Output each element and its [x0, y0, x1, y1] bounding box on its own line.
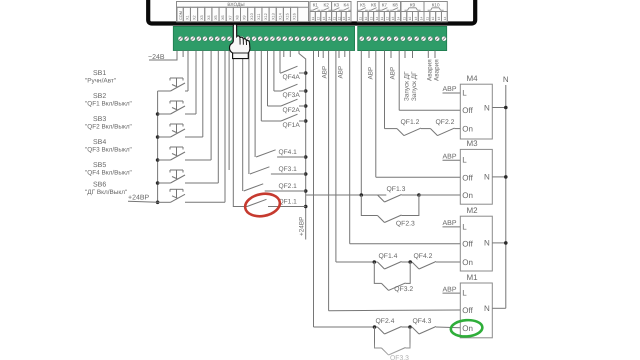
- net label Запуск ДГ (stub): [404, 51, 406, 58]
- M1 Off wire: [329, 309, 461, 312]
- svg-text:N: N: [484, 239, 490, 248]
- svg-text:X13: X13: [271, 13, 275, 20]
- contact QF4A: [279, 51, 281, 73]
- M3 On branch from +24VP bus: [306, 194, 387, 196]
- svg-text:QF4.3: QF4.3: [413, 318, 432, 325]
- svg-text:14: 14: [396, 17, 400, 21]
- input cells COM..X16: [177, 7, 183, 21]
- K1 K2 block: [310, 2, 332, 22]
- junction: [417, 193, 421, 197]
- svg-text:Off: Off: [462, 106, 473, 115]
- svg-text:QF1.3: QF1.3: [387, 186, 406, 193]
- -24V supply wire and label: [149, 51, 177, 60]
- svg-text:К8: К8: [393, 2, 399, 7]
- svg-text:SB2: SB2: [93, 93, 106, 100]
- parallel branch contact QF3.3: [375, 327, 382, 348]
- svg-text:SB6: SB6: [93, 181, 106, 188]
- svg-text:11: 11: [311, 17, 315, 21]
- svg-text:QF1A: QF1A: [283, 122, 301, 129]
- M2 Off wire: [350, 243, 461, 245]
- N wire of M3: [492, 176, 506, 178]
- svg-text:К10: К10: [432, 2, 440, 7]
- svg-text:QF2.2: QF2.2: [436, 119, 455, 126]
- wire to QF1.2 branch (M4 On): [384, 51, 386, 129]
- wire: [185, 159, 211, 161]
- svg-text:"ДГ Вкл/Выкл": "ДГ Вкл/Выкл": [85, 189, 127, 196]
- M2 On branch: [336, 261, 378, 263]
- svg-text:АВР: АВР: [337, 66, 344, 79]
- wire to M2 Off: [349, 51, 351, 244]
- svg-text:On: On: [462, 191, 473, 200]
- svg-text:К5: К5: [360, 2, 366, 7]
- wire from terminal to QF1.1: [233, 51, 247, 207]
- svg-text:SB4: SB4: [93, 139, 106, 146]
- svg-text:13: 13: [437, 17, 441, 21]
- svg-text:АВР: АВР: [389, 67, 396, 80]
- svg-text:QF1.1: QF1.1: [279, 199, 298, 206]
- M4 On branch wire: [385, 128, 398, 130]
- svg-text:"QF4 Вкл/Выкл": "QF4 Вкл/Выкл": [85, 170, 132, 177]
- wire to M3 Off: [375, 51, 377, 178]
- svg-text:QF3A: QF3A: [283, 92, 301, 99]
- svg-text:QF1.4: QF1.4: [379, 253, 398, 260]
- svg-text:К3: К3: [334, 2, 340, 7]
- svg-text:N: N: [484, 103, 490, 112]
- svg-text:11: 11: [359, 17, 363, 21]
- svg-text:К6: К6: [371, 2, 377, 7]
- N wire of M4: [492, 107, 506, 109]
- svg-text:L: L: [462, 88, 467, 97]
- net label Авария (stub): [434, 51, 436, 58]
- svg-text:QF3.2: QF3.2: [394, 286, 413, 293]
- contact QF2.1: [242, 51, 244, 191]
- wire to QF1.3 branch (M3 On): [360, 51, 362, 195]
- svg-text:L: L: [462, 222, 467, 231]
- svg-text:Запуск ДГ: Запуск ДГ: [411, 71, 418, 101]
- svg-text:X16: X16: [293, 13, 297, 20]
- contact QF3A: [273, 51, 275, 91]
- svg-text:On: On: [462, 124, 473, 133]
- svg-text:M2: M2: [466, 206, 478, 215]
- svg-text:14: 14: [327, 17, 331, 21]
- svg-text:X5: X5: [214, 15, 218, 20]
- PLC device outline (thick bottom edge of controller): [148, 0, 475, 24]
- svg-text:14: 14: [375, 17, 379, 21]
- wire to M1 Off: [328, 51, 330, 311]
- svg-text:"Ручн/Авт": "Ручн/Авт": [85, 78, 116, 85]
- svg-text:M4: M4: [466, 74, 478, 83]
- svg-text:X3: X3: [200, 15, 204, 20]
- green annotation ellipse around M1 On: [450, 319, 483, 337]
- K10 block: [424, 2, 447, 22]
- svg-text:+24ВР: +24ВР: [299, 217, 306, 236]
- contact QF1.1: [247, 199, 267, 206]
- contact QF4.1: [254, 51, 256, 157]
- spare wire: [228, 51, 230, 170]
- svg-text:L: L: [462, 289, 467, 298]
- svg-text:QF3.1: QF3.1: [279, 166, 298, 173]
- screws of strip 1: [178, 36, 183, 41]
- svg-text:N: N: [484, 304, 490, 313]
- svg-text:12: 12: [431, 17, 435, 21]
- screws of strip 2: [359, 36, 364, 41]
- svg-text:X12: X12: [264, 13, 268, 20]
- svg-text:АВР: АВР: [443, 220, 457, 227]
- parallel branch contact QF3.2: [374, 262, 381, 283]
- svg-text:Off: Off: [462, 173, 473, 182]
- svg-text:QF2A: QF2A: [283, 107, 301, 114]
- svg-text:14: 14: [420, 17, 424, 21]
- K5 K6 block: [357, 2, 379, 22]
- svg-text:12: 12: [386, 17, 390, 21]
- svg-text:On: On: [462, 324, 473, 333]
- wire: [185, 90, 188, 92]
- svg-text:12: 12: [317, 17, 321, 21]
- svg-text:11: 11: [380, 17, 384, 21]
- mouse hand cursor: [229, 24, 249, 59]
- svg-text:АВР: АВР: [443, 86, 457, 93]
- svg-text:X8: X8: [236, 15, 240, 20]
- contact QF1A: [260, 51, 262, 121]
- net label Запуск ДГ (stub): [412, 51, 414, 58]
- svg-text:Запуск ДГ: Запуск ДГ: [403, 71, 410, 101]
- svg-text:X11: X11: [257, 14, 261, 20]
- svg-text:К9: К9: [410, 2, 416, 7]
- svg-text:N: N: [503, 75, 509, 84]
- wire: [185, 182, 218, 184]
- svg-text:"QF3 Вкл/Выкл": "QF3 Вкл/Выкл": [85, 147, 132, 154]
- svg-text:+24ВР: +24ВР: [128, 194, 150, 201]
- svg-text:14: 14: [443, 17, 447, 21]
- wire: [185, 113, 196, 115]
- svg-text:X15: X15: [286, 13, 290, 20]
- svg-text:QF4A: QF4A: [283, 74, 301, 81]
- svg-text:К1: К1: [313, 2, 319, 7]
- svg-text:АВР: АВР: [443, 153, 457, 160]
- junction: [360, 193, 364, 197]
- svg-text:QF4.2: QF4.2: [414, 253, 433, 260]
- N wire of M1: [492, 307, 506, 309]
- svg-text:12: 12: [364, 17, 368, 21]
- svg-text:SB3: SB3: [93, 116, 106, 123]
- svg-text:13: 13: [342, 17, 346, 21]
- svg-text:11: 11: [425, 17, 429, 21]
- svg-text:X14: X14: [278, 13, 282, 20]
- svg-text:14: 14: [347, 17, 351, 21]
- wire to M1 On branch: [313, 51, 315, 327]
- K7 K8 block: [379, 2, 401, 22]
- unconnected terminal wire stubs: [182, 51, 184, 57]
- svg-text:X10: X10: [250, 13, 254, 20]
- svg-text:M1: M1: [466, 273, 478, 282]
- contact QF3.1: [248, 51, 250, 174]
- svg-text:11: 11: [333, 17, 337, 21]
- wire: [185, 201, 225, 203]
- svg-text:13: 13: [322, 17, 326, 21]
- svg-text:QF1.2: QF1.2: [401, 119, 420, 126]
- svg-text:К4: К4: [344, 2, 350, 7]
- svg-text:"QF1 Вкл/Выкл": "QF1 Вкл/Выкл": [85, 101, 132, 108]
- contact QF2A: [267, 51, 269, 106]
- svg-text:X1: X1: [185, 15, 189, 20]
- svg-text:Off: Off: [462, 240, 473, 249]
- svg-text:X7: X7: [228, 15, 232, 20]
- M3 Off wire: [376, 176, 461, 178]
- M4 Off wire: [399, 109, 460, 111]
- svg-text:X6: X6: [221, 15, 225, 20]
- wire: [185, 136, 203, 138]
- svg-text:12: 12: [408, 17, 412, 21]
- svg-text:−24В: −24В: [148, 54, 165, 61]
- svg-text:L: L: [462, 156, 467, 165]
- svg-text:X4: X4: [207, 15, 211, 20]
- svg-text:X2: X2: [193, 15, 197, 20]
- net label АВР (stub): [390, 51, 392, 58]
- svg-text:SB1: SB1: [93, 70, 106, 77]
- wire to M4 Off: [398, 51, 400, 111]
- green terminal strip 1: [173, 26, 354, 50]
- N wire of M2: [492, 242, 506, 244]
- svg-text:13: 13: [414, 17, 418, 21]
- K3 K4 block: [332, 2, 351, 22]
- wire to M2 On branch: [335, 51, 337, 262]
- svg-text:On: On: [462, 258, 473, 267]
- parallel branch contact QF2.3: [361, 195, 377, 216]
- svg-text:13: 13: [369, 17, 373, 21]
- net label АВР (stub): [338, 51, 340, 58]
- svg-text:12: 12: [337, 17, 341, 21]
- svg-text:M3: M3: [466, 139, 478, 148]
- green terminal strip 2: [358, 26, 447, 50]
- svg-text:QF2.3: QF2.3: [396, 220, 415, 227]
- svg-text:13: 13: [391, 17, 395, 21]
- svg-text:АВР: АВР: [322, 66, 329, 79]
- svg-text:АВР: АВР: [367, 67, 374, 80]
- +24VP vertical bus with junction dots: [299, 51, 306, 240]
- svg-text:QF2.1: QF2.1: [279, 183, 298, 190]
- svg-text:11: 11: [402, 17, 406, 21]
- M1 On branch: [314, 326, 378, 328]
- net label АВР (stub): [322, 51, 324, 58]
- K9 block: [401, 2, 424, 22]
- svg-text:К2: К2: [324, 2, 330, 7]
- input terminal label block (COM, X1..X16) with header: [177, 2, 309, 22]
- svg-text:SB5: SB5: [93, 162, 106, 169]
- svg-text:X9: X9: [243, 15, 247, 20]
- svg-text:АВР: АВР: [443, 286, 457, 293]
- svg-text:QF2.4: QF2.4: [376, 318, 395, 325]
- svg-text:COM: COM: [179, 11, 183, 20]
- red annotation ellipse around QF1.1: [243, 191, 281, 219]
- net label АВР (stub): [368, 51, 370, 58]
- svg-text:К7: К7: [382, 2, 388, 7]
- svg-text:Авария: Авария: [433, 59, 440, 81]
- net label Авария (stub): [427, 51, 429, 58]
- +24V common bus for SB buttons: [157, 91, 159, 202]
- svg-text:QF4.1: QF4.1: [279, 149, 298, 156]
- svg-text:"QF2 Вкл/Выкл": "QF2 Вкл/Выкл": [85, 124, 132, 131]
- svg-text:N: N: [484, 173, 490, 182]
- svg-text:Off: Off: [462, 306, 473, 315]
